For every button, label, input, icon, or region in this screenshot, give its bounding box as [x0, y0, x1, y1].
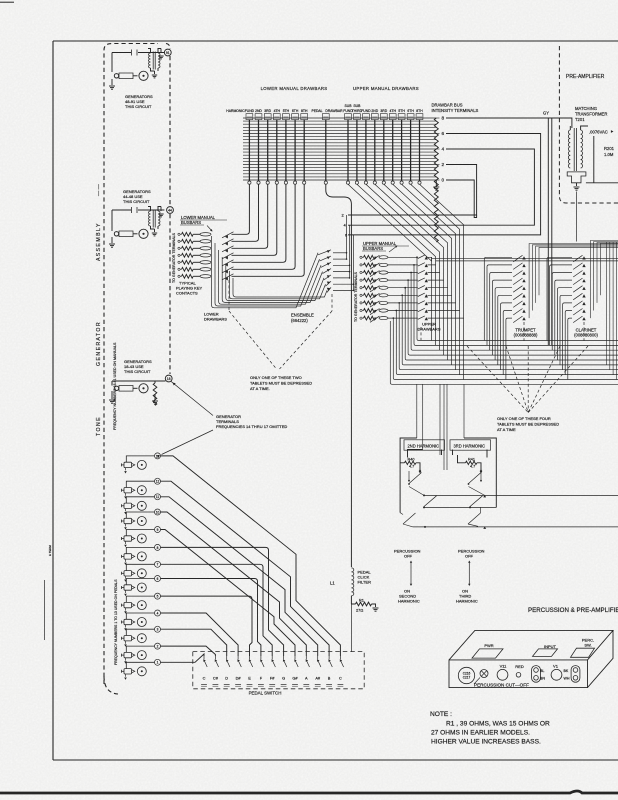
- upper manual busbar 9: [379, 317, 388, 320]
- svg-text:SUB: SUB: [353, 104, 361, 108]
- transformer T201 leads: [570, 126, 588, 130]
- svg-text:4: 4: [157, 611, 159, 615]
- svg-text:THIS CIRCUIT: THIS CIRCUIT: [123, 199, 150, 204]
- label 3rd harmonic: [450, 440, 491, 450]
- wire pedal terminal 4 to switch: [161, 613, 239, 656]
- pedal generator 1 tone wheel: [137, 667, 146, 676]
- pedal generator 12 ground arrow: [125, 493, 127, 496]
- resistor gen3: [153, 383, 157, 405]
- scan artifact left edge: [44, 580, 46, 640]
- pedal generator 1 wire: [126, 662, 154, 668]
- wire pedal terminal 9 to switch: [161, 530, 296, 657]
- pedal generator terminal 9: [155, 527, 161, 533]
- svg-text:91: 91: [166, 51, 170, 55]
- wire upper drawbars row 1 output to preamp: [432, 257, 618, 259]
- svg-text:BUSBARS: BUSBARS: [181, 220, 201, 225]
- magnet bar gen1: [119, 73, 133, 79]
- pedal generator terminal 6: [155, 576, 161, 582]
- transformer T gen1 secondary: [158, 53, 160, 68]
- tone generator assembly dashed boundary left: [104, 44, 158, 685]
- upper manual busbar 3: [379, 271, 388, 274]
- pedal generator 4 magnet: [124, 619, 132, 624]
- svg-text:C#: C#: [213, 676, 219, 681]
- clarinet tablet switch stack: [582, 256, 585, 259]
- ground gen1 transformer secondary: [160, 49, 162, 54]
- pedal generator 8 tone wheel: [137, 552, 146, 561]
- upper manual bus wires to tablets: [416, 256, 418, 258]
- svg-text:CONTACTS: CONTACTS: [176, 291, 198, 296]
- pedal generator 12 wire: [126, 481, 154, 487]
- svg-text:6TH: 6TH: [292, 109, 299, 113]
- lower manual key contact row 1 resistor: [178, 233, 180, 235]
- wire trumpet row 8 from bus: [503, 311, 512, 375]
- pedal drawbar wire to pedal click filter: [326, 184, 352, 567]
- wire pedal terminal 7 to switch: [161, 564, 273, 656]
- lower manual key contact row 4 resistor: [178, 254, 180, 256]
- svg-text:OFF: OFF: [404, 554, 413, 559]
- svg-text:PWR: PWR: [484, 643, 493, 648]
- pedal switch contact C: [203, 656, 205, 659]
- third level switch contact right: [468, 513, 481, 524]
- percussion bus line 3: [413, 526, 618, 528]
- trumpet tablet switch stack: [522, 256, 525, 259]
- wire clarinet row 2 from bus: [550, 265, 572, 346]
- red jack: [516, 673, 521, 678]
- label 2nd harmonic: [404, 440, 445, 450]
- svg-text:0: 0: [442, 178, 445, 183]
- svg-text:FUND: FUND: [361, 109, 371, 113]
- svg-text:TO GENERATOR TERMINALS: TO GENERATOR TERMINALS: [172, 233, 176, 283]
- svg-text:HARMONIC:: HARMONIC:: [226, 109, 245, 113]
- pedal generator 5 ground arrow: [125, 608, 127, 611]
- svg-text:TRANSFORMER: TRANSFORMER: [575, 111, 607, 116]
- svg-text:9: 9: [157, 528, 159, 532]
- upper manual busbar row 1 wire: [388, 256, 418, 258]
- upper manual busbar row 4 wire: [388, 279, 418, 281]
- svg-text:A S S E M B L Y: A S S E M B L Y: [96, 223, 102, 261]
- ground gen1 magnet: [111, 79, 113, 85]
- svg-text:FILTER: FILTER: [358, 580, 372, 585]
- svg-text:BN: BN: [540, 677, 545, 681]
- generator circuit 3 wiring: [112, 381, 166, 386]
- clarinet tablet output wires: [590, 241, 618, 319]
- pedal generator 11 magnet: [124, 503, 132, 508]
- svg-text:2: 2: [442, 162, 445, 167]
- svg-text:INTENSITY TERMINALS: INTENSITY TERMINALS: [432, 108, 479, 113]
- clarinet dashed pointer: [583, 322, 585, 341]
- transformer gen2 top leads: [148, 207, 161, 212]
- lower manual key contact row 5 switch: [222, 260, 234, 266]
- svg-text:MATCHING: MATCHING: [575, 106, 597, 111]
- svg-text:HIGHER VALUE INCREASES BASS.: HIGHER VALUE INCREASES BASS.: [431, 739, 541, 746]
- svg-text:TABLETS MUST BE DEPRESSED: TABLETS MUST BE DEPRESSED: [250, 381, 312, 386]
- tube V1 socket: [551, 669, 562, 680]
- upper manual busbar 7: [379, 301, 388, 304]
- upper manual key contact row 6 switch: [370, 293, 380, 299]
- svg-text:OFF: OFF: [465, 554, 474, 559]
- svg-text:WH: WH: [564, 677, 570, 681]
- pedal generator 6 tone wheel: [137, 583, 146, 592]
- svg-text:G E N E R A T O R: G E N E R A T O R: [96, 322, 102, 366]
- pedal generator 13 magnet: [124, 462, 132, 467]
- lower manual key contact row 6 switch: [222, 267, 234, 273]
- svg-text:1.0M: 1.0M: [604, 152, 614, 157]
- pedal switch contact F#: [271, 656, 273, 659]
- upper manual key contact row 7 resistor: [360, 302, 362, 304]
- svg-text:G#: G#: [292, 676, 298, 681]
- svg-text:4TH: 4TH: [274, 109, 281, 113]
- pedal generator terminal 3: [155, 626, 161, 632]
- upper drawbars tablet switch stack: [425, 256, 428, 259]
- pedal generator 11 wire: [126, 497, 154, 503]
- ground gen3 resistor: [154, 394, 156, 400]
- svg-text:TO GENERATOR TERMINALS: TO GENERATOR TERMINALS: [354, 272, 358, 322]
- pedal generator 13 tone wheel: [137, 460, 146, 469]
- pedal generator terminal 10: [155, 509, 161, 515]
- 2nd harmonic switch contact: [419, 470, 421, 472]
- svg-text:4: 4: [442, 147, 445, 152]
- svg-text:8TH: 8TH: [416, 109, 423, 113]
- upper manual busbar row 8 wire: [388, 310, 418, 312]
- upper manual key contact row 8 switch: [370, 309, 380, 315]
- jacks BL BN: [532, 666, 541, 683]
- pedal generator 4 ground arrow: [125, 625, 127, 628]
- svg-text:6TH: 6TH: [407, 109, 414, 113]
- pedal generator 3 wire: [126, 629, 154, 635]
- svg-text:A#: A#: [315, 676, 321, 681]
- svg-text:THIS CIRCUIT: THIS CIRCUIT: [124, 369, 151, 374]
- upper manual busbar 5: [379, 286, 388, 289]
- svg-text:27Ω: 27Ω: [356, 608, 363, 613]
- second level switch contact left: [424, 496, 437, 507]
- svg-text:B: B: [328, 676, 331, 681]
- svg-text:FREQUENCIES 14 THRU 17 OMITTED: FREQUENCIES 14 THRU 17 OMITTED: [216, 424, 287, 429]
- upper manual key contact row 4 switch: [370, 278, 380, 284]
- generator circuit 1 wiring: [112, 53, 164, 73]
- pedal generator 3 magnet: [124, 636, 132, 641]
- pedal generator terminal 5: [155, 593, 161, 599]
- ensemble dashed pointer: [331, 294, 333, 311]
- pedal generator 5 wire: [126, 596, 154, 602]
- wire tap 8 to matching transformer: [446, 118, 572, 128]
- wire clarinet row 8 from bus: [565, 311, 572, 375]
- percussion cutoff control: [480, 670, 488, 678]
- generator terminals callout: [171, 381, 213, 415]
- lower manual key contact row 3 switch: [222, 246, 234, 252]
- svg-text:3RD: 3RD: [380, 109, 387, 113]
- upper manual busbar 1: [379, 256, 388, 259]
- upper manual key contact row 2 resistor: [360, 264, 362, 266]
- wire trumpet row 1 from bus: [484, 257, 512, 340]
- drawbar bus horizontal lines: [243, 117, 436, 119]
- svg-text:TABLETS MUST BE DEPRESSED: TABLETS MUST BE DEPRESSED: [497, 422, 559, 427]
- svg-text:LOWER MANUAL DRAWBARS: LOWER MANUAL DRAWBARS: [261, 86, 328, 91]
- wire lower row 4 to drawbar column: [232, 184, 277, 255]
- svg-text:4.7: 4.7: [470, 465, 475, 469]
- wire tap 6 bus: [348, 134, 541, 235]
- svg-text:2ND HARMONIC: 2ND HARMONIC: [408, 443, 440, 448]
- leader percussion cutoff: [474, 678, 480, 685]
- pedal generator 2 wire: [126, 646, 154, 652]
- svg-text:6: 6: [157, 577, 159, 581]
- pedal switch contact C#: [214, 656, 216, 659]
- lower manual busbar 6: [200, 268, 211, 271]
- pedal generator 8 ground arrow: [125, 559, 127, 562]
- wire trumpet row 7 from bus: [501, 303, 513, 370]
- svg-text:8: 8: [157, 546, 159, 550]
- lower manual key contact row 7 resistor: [178, 275, 180, 277]
- pedal generator 12 tone wheel: [137, 486, 146, 495]
- pedal generator 13 wire: [126, 456, 154, 462]
- wire lower row 5 to drawbar column: [232, 184, 286, 262]
- tone wheel gen1: [139, 71, 148, 80]
- upper manual busbar 4: [379, 279, 388, 282]
- terminal circle 18: [165, 375, 172, 382]
- svg-text:5: 5: [157, 595, 159, 599]
- svg-text:PERCUSSION & PRE-AMPLIFIE: PERCUSSION & PRE-AMPLIFIE: [528, 607, 618, 614]
- upper manual busbar row 2 wire: [388, 264, 418, 266]
- svg-text:A: A: [305, 676, 308, 681]
- svg-text:UPPER MANUAL DRAWBARS: UPPER MANUAL DRAWBARS: [353, 86, 419, 91]
- pedal generator 9 tone wheel: [137, 534, 146, 543]
- svg-text:C: C: [339, 676, 342, 681]
- upper manual busbar 6: [379, 294, 388, 297]
- pedal generator 6 ground arrow: [125, 590, 127, 593]
- svg-text:13: 13: [156, 454, 160, 458]
- ground gen3 magnet: [111, 391, 113, 399]
- terminal circle 91: [164, 49, 171, 56]
- svg-text:PRE-AMPLIFIER: PRE-AMPLIFIER: [566, 74, 605, 80]
- ground gen1 transformer bottom: [151, 68, 159, 71]
- svg-text:HARMONIC: HARMONIC: [456, 599, 478, 604]
- pedal generator 10 magnet: [124, 518, 132, 523]
- third level switch contact left: [400, 513, 403, 515]
- wire lower row 6 to drawbar column: [232, 184, 296, 269]
- svg-text:C217: C217: [463, 676, 471, 680]
- svg-text:2: 2: [157, 645, 159, 649]
- wire clarinet row 3 from bus: [552, 273, 572, 351]
- svg-text:T O N E: T O N E: [96, 417, 102, 436]
- capacitor C gen1: [131, 50, 133, 56]
- pedal generator 1 magnet: [124, 669, 132, 674]
- tone generator assembly dashed boundary bottom curve: [104, 676, 118, 694]
- upper manual key contact row 1 resistor: [360, 256, 362, 258]
- wire pedal terminal 11 to switch: [161, 497, 318, 656]
- pedal generator 6 magnet: [124, 585, 132, 590]
- svg-text:8TH: 8TH: [301, 109, 308, 113]
- page top edge line: [0, 1, 14, 3]
- wire lower row 1 to drawbar column: [232, 184, 250, 234]
- ensemble tablet switch stack: [318, 250, 331, 255]
- pedal switch contact G#: [294, 656, 296, 659]
- magnet bar gen3: [119, 386, 133, 392]
- bus grid vertical drawbar wires lower: [248, 120, 250, 181]
- wire upper drawbars row 4 to bus: [443, 280, 445, 355]
- svg-text:FUND: FUND: [245, 109, 255, 113]
- pedal generator 7 wire: [126, 564, 154, 570]
- wire tap 2 bus: [348, 165, 477, 216]
- pedal generator 9 magnet: [124, 536, 132, 541]
- upper drawbars dashed pointer: [420, 327, 422, 340]
- svg-text:R40: R40: [408, 457, 415, 461]
- ground gen2 transformer secondary: [160, 207, 162, 212]
- wire clarinet row 6 from bus: [560, 295, 572, 365]
- svg-text:2ND: 2ND: [255, 109, 262, 113]
- lower manual busbar 4: [200, 254, 211, 257]
- svg-text:DRAWBARS: DRAWBARS: [418, 327, 441, 332]
- svg-text:5TH: 5TH: [283, 109, 290, 113]
- ensemble output risers: [346, 215, 348, 259]
- upper manual busbar row 3 wire: [388, 272, 418, 274]
- lower drawbars dashed pointer: [228, 280, 230, 311]
- pedal switch contact E: [249, 656, 251, 659]
- wire trumpet row 6 from bus: [498, 295, 512, 365]
- transformer T gen1 primary: [149, 53, 151, 68]
- wire pedal terminal 6 to switch: [161, 579, 261, 657]
- percussion bus line 2: [424, 506, 496, 508]
- pedal generator 6 wire: [126, 579, 154, 585]
- upper manual busbar row 7 wire: [388, 302, 418, 304]
- svg-text:8: 8: [442, 116, 445, 121]
- svg-text:G: G: [282, 676, 285, 681]
- svg-text:T201: T201: [575, 117, 585, 122]
- svg-text:44: 44: [168, 209, 172, 213]
- pedal generator 9 ground arrow: [125, 541, 127, 544]
- svg-text:V11: V11: [500, 664, 508, 669]
- tone generator assembly dashed boundary right: [166, 44, 170, 50]
- svg-text:4TH: 4TH: [389, 109, 396, 113]
- wire trumpet row 4 from bus: [492, 280, 512, 355]
- wire upper drawbars row 7 to bus: [455, 303, 457, 370]
- upper manual key contact row 9 resistor: [360, 317, 362, 319]
- wire GY pair vertical: [547, 118, 549, 345]
- upper manual busbar 2: [379, 263, 388, 266]
- wire upper drawbars row 6 to bus: [451, 295, 453, 365]
- chassis outline: [449, 630, 613, 687]
- svg-text:PEDAL SWITCH: PEDAL SWITCH: [249, 691, 282, 696]
- lower manual key contact row 7 switch: [222, 274, 234, 280]
- wire pedal terminal 8 to switch: [161, 547, 284, 656]
- resistor R1: [351, 596, 355, 604]
- svg-text:— —: — —: [96, 183, 102, 196]
- svg-text:HARMONIC: HARMONIC: [398, 599, 420, 604]
- wire trumpet row 9 from bus: [506, 318, 512, 379]
- lower manual key contact row 1 switch: [222, 232, 234, 238]
- lower manual key contact row 6 resistor: [178, 268, 180, 270]
- svg-text:BK: BK: [564, 669, 569, 673]
- tone wheel gen3: [139, 384, 148, 393]
- pedal generator 10 ground arrow: [125, 524, 127, 527]
- wire pedal terminal 2 to switch: [161, 646, 216, 656]
- wire tap 4 bus: [348, 149, 534, 225]
- svg-text:AT A TIME: AT A TIME: [497, 427, 516, 432]
- upper manual busbars pointer arrow: [389, 246, 397, 252]
- svg-text:BUSBARS: BUSBARS: [363, 246, 383, 251]
- svg-text:D: D: [225, 676, 228, 681]
- wire pedal terminal 10 to switch: [161, 512, 307, 656]
- upper manual key contact row 3 switch: [370, 271, 380, 277]
- svg-text:1: 1: [157, 661, 159, 665]
- wire clarinet row 1 from bus: [547, 257, 572, 340]
- svg-text:ONLY ONE OF THESE FOUR: ONLY ONE OF THESE FOUR: [497, 416, 551, 421]
- svg-text:(008080800): (008080800): [574, 333, 598, 338]
- svg-text:NOTE :: NOTE :: [430, 711, 452, 718]
- 3rd harmonic box wires: [453, 438, 497, 508]
- pedal switch contact D: [226, 656, 228, 659]
- transformer T201 primary winding: [568, 130, 570, 168]
- wire pedal terminal 3 to switch: [161, 629, 227, 656]
- svg-text:R1 , 39 OHMS, WAS 15 OHMS OR: R1 , 39 OHMS, WAS 15 OHMS OR: [446, 721, 550, 728]
- pedal switch contact G: [283, 656, 285, 659]
- lower manual busbar 2: [200, 240, 211, 243]
- wire clarinet row 5 from bus: [557, 288, 572, 360]
- svg-text:2ND: 2ND: [371, 109, 378, 113]
- pedal generator 8 magnet: [124, 554, 132, 559]
- svg-text:10: 10: [156, 510, 160, 514]
- wire lower row 2 to drawbar column: [232, 184, 259, 241]
- svg-text:PERCUSSION CUT—OFF: PERCUSSION CUT—OFF: [474, 682, 529, 687]
- svg-text:18: 18: [167, 377, 171, 381]
- svg-text:R201: R201: [604, 146, 615, 151]
- svg-text:ENSEMBLE: ENSEMBLE: [291, 313, 314, 318]
- upper manual key contact row 1 switch: [370, 255, 380, 261]
- capacitor C gen2: [131, 207, 133, 213]
- svg-text:THIS CIRCUIT: THIS CIRCUIT: [125, 104, 152, 109]
- pre-amplifier dashed boundary: [559, 46, 618, 203]
- svg-text:FREQUENCY NUMBERS 1 TO 13 U: FREQUENCY NUMBERS 1 TO 13 USED ON PEDALS: [114, 579, 118, 665]
- lower manual key contact row 3 resistor: [178, 247, 180, 249]
- wire upper drawbars row 5 to bus: [447, 288, 449, 360]
- terminal circle 44: [167, 207, 174, 214]
- transformer T gen1 core: [152, 52, 154, 70]
- svg-text:SUB: SUB: [345, 104, 353, 108]
- lower manual busbar 1: [200, 233, 211, 236]
- wire to 3rd harmonic: [463, 385, 465, 439]
- lower manual busbar 5: [200, 261, 211, 264]
- wire triple to harmonic switches: [439, 385, 441, 456]
- wire upper drawbars row 9 to bus: [463, 318, 465, 379]
- pedal generator terminal 12: [155, 478, 161, 484]
- pedal generator 5 magnet: [124, 602, 132, 607]
- wire L1 to pedal switch: [350, 604, 352, 652]
- wire upper drawbars row 2 to bus: [435, 265, 437, 346]
- transformer T201 core: [573, 128, 575, 171]
- svg-text:6: 6: [442, 131, 445, 136]
- svg-text:12: 12: [156, 480, 160, 484]
- svg-text:AT A TIME.: AT A TIME.: [250, 386, 270, 391]
- svg-text:3RD HARMONIC: 3RD HARMONIC: [454, 443, 486, 448]
- pedal generator terminal 11: [155, 494, 161, 500]
- svg-text:ONLY ONE OF THESE TWO: ONLY ONE OF THESE TWO: [250, 375, 302, 380]
- svg-text:D#: D#: [236, 676, 242, 681]
- dashed rays four tablets: [467, 346, 528, 413]
- transformer gen1 top leads: [148, 49, 161, 54]
- wire pedal terminal 5 to switch: [161, 596, 253, 656]
- upper manual key contact row 3 resistor: [360, 271, 362, 273]
- pedal generator 9 wire: [126, 530, 154, 536]
- svg-text:H TERM: H TERM: [48, 545, 52, 556]
- wire clarinet row 7 from bus: [563, 303, 572, 370]
- pedal switch contact B: [328, 656, 330, 659]
- pedal switch contact A#: [317, 656, 319, 659]
- tube V11 socket: [497, 669, 508, 680]
- svg-text:PEDAL: PEDAL: [311, 109, 322, 113]
- transformer T201 secondary winding: [581, 130, 583, 168]
- pedal generator 4 wire: [126, 613, 154, 619]
- svg-text:DRAWBAR BUS: DRAWBAR BUS: [432, 103, 463, 108]
- svg-text:3RD: 3RD: [264, 109, 271, 113]
- upper manual busbar row 9 wire: [388, 317, 418, 319]
